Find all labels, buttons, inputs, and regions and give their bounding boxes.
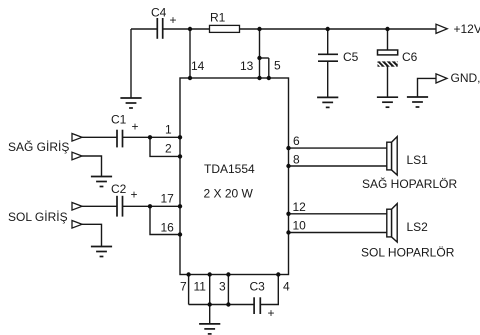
svg-text:13: 13 [240,59,254,73]
svg-text:2: 2 [165,141,172,155]
svg-text:11: 11 [194,280,207,294]
svg-text:GND,: GND, [451,71,480,85]
svg-text:TDA1554: TDA1554 [204,162,255,176]
svg-text:16: 16 [161,221,175,235]
svg-text:C5: C5 [343,50,359,64]
svg-text:+: + [170,13,177,27]
svg-text:5: 5 [274,59,281,73]
svg-text:C4: C4 [151,6,167,20]
svg-text:10: 10 [293,219,307,233]
svg-text:SOL HOPARLÖR: SOL HOPARLÖR [361,246,455,260]
svg-text:SAĞ HOPARLÖR: SAĞ HOPARLÖR [362,176,457,191]
svg-text:+: + [132,120,139,134]
svg-text:7: 7 [180,280,187,294]
svg-text:C2: C2 [111,182,127,196]
svg-text:2 X 20 W: 2 X 20 W [204,186,254,200]
svg-text:4: 4 [283,280,290,294]
svg-text:LS1: LS1 [407,153,429,167]
svg-text:C6: C6 [402,50,418,64]
svg-text:+12V: +12V [454,22,480,36]
svg-text:C1: C1 [111,113,127,127]
svg-text:6: 6 [293,134,300,148]
svg-text:14: 14 [191,59,205,73]
svg-text:1: 1 [165,123,172,137]
svg-text:17: 17 [161,192,175,206]
svg-text:12: 12 [293,200,307,214]
svg-text:C3: C3 [250,280,266,294]
svg-text:+: + [131,188,138,202]
svg-text:8: 8 [293,152,300,166]
svg-text:3: 3 [219,280,226,294]
svg-text:SAĞ GİRİŞ: SAĞ GİRİŞ [8,139,69,154]
svg-text:LS2: LS2 [407,220,429,234]
svg-text:+: + [268,306,275,320]
svg-text:SOL GİRİŞ: SOL GİRİŞ [8,210,68,224]
svg-text:R1: R1 [210,11,226,25]
